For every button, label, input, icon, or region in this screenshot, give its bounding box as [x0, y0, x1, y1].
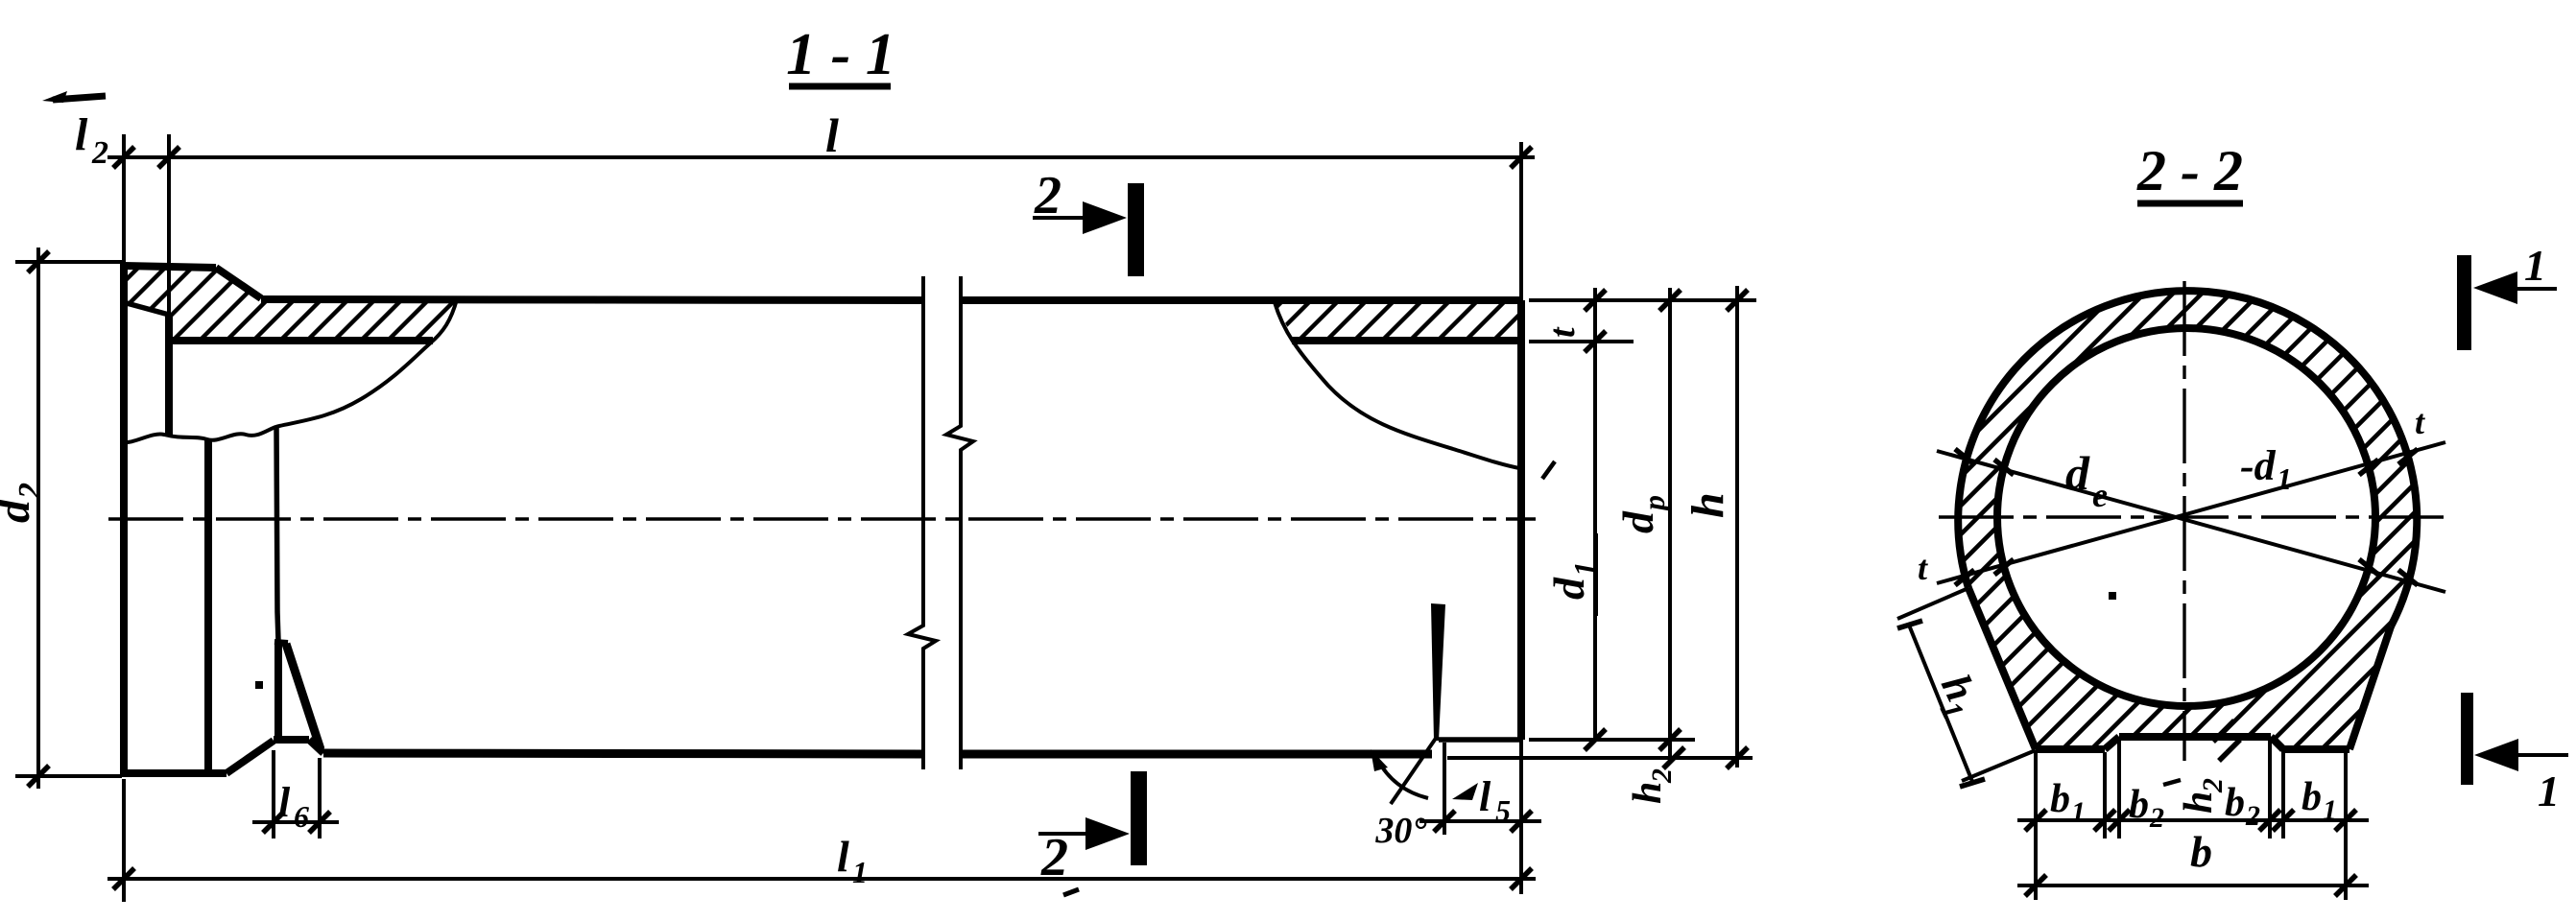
svg-text:l: l [75, 109, 88, 160]
h1 dimension line [1908, 623, 1973, 784]
tick A outer lower-left [1955, 570, 1974, 585]
tick A inner upper-right [2359, 460, 2378, 475]
tick l left [113, 147, 134, 168]
label l1 [837, 832, 868, 889]
tick row1 x2121 [2025, 810, 2046, 831]
svg-text:2: 2 [1040, 828, 1068, 887]
right 30-degree sole bevel spike [1431, 603, 1445, 741]
svg-text:2 - 2: 2 - 2 [2136, 139, 2243, 202]
section marker 1 bottom: arrow [2474, 739, 2568, 771]
h dimension line x=1810 [1735, 286, 1739, 767]
outer left slant [1968, 588, 2036, 749]
barrel outer top (right part) [961, 296, 1521, 304]
stray arrow mark top-left [42, 91, 106, 103]
h2 leader dash [2163, 780, 2181, 785]
tick t bottom [1585, 331, 1606, 352]
break line left with zigzag [908, 276, 936, 769]
d2 dimension line [36, 248, 40, 789]
svg-text:2: 2 [1646, 768, 1678, 784]
right end extension line [1519, 142, 1523, 894]
tick row1 x2365 [2259, 810, 2280, 831]
tick h1 bottom [1960, 779, 1985, 787]
svg-text:1: 1 [2323, 794, 2337, 826]
tick l5 right [1511, 811, 1532, 832]
tick A inner lower-left [1994, 559, 2014, 575]
label -d1 [2240, 442, 2292, 496]
label h2 (rotated) [1626, 768, 1678, 804]
svg-text:l: l [1479, 773, 1491, 820]
right end face [1517, 300, 1525, 740]
section marker 2 bottom: bar [1131, 771, 1147, 865]
bell taper bottom [227, 741, 274, 773]
sole bottom (left half) [323, 753, 923, 754]
svg-text:1: 1 [2538, 767, 2560, 815]
bell view vertical x=217 [204, 439, 212, 772]
tick B outer lower-right [2398, 570, 2418, 585]
svg-text:2: 2 [1034, 166, 1061, 225]
left 30-degree sole bevel spike [274, 642, 282, 740]
outer profile arc [1958, 291, 2417, 626]
tick B inner lower-right [2359, 559, 2378, 575]
t/d1 dimension line x=1662 [1593, 288, 1597, 740]
sole ledge left (y=771) [274, 736, 309, 744]
sole bottom right strip [2283, 745, 2349, 753]
svg-text:1 - 1: 1 - 1 [786, 22, 895, 87]
svg-text:b: b [2050, 777, 2070, 821]
svg-text:l: l [825, 108, 839, 162]
svg-text:6: 6 [294, 799, 309, 834]
tick B outer upper-left [1955, 449, 1974, 464]
label h1 (rotated) [1924, 668, 1991, 725]
svg-text:1: 1 [2524, 241, 2546, 290]
svg-text:t: t [1918, 549, 1928, 587]
svg-text:2: 2 [2149, 802, 2164, 834]
tick B inner upper-left [1994, 460, 2014, 475]
b1/b2 dimension line [2017, 818, 2369, 822]
tick d2 top [28, 251, 49, 272]
h1 extension top [1897, 588, 1968, 619]
svg-text:p: p [1636, 495, 1671, 513]
tick l5 left [1434, 811, 1455, 832]
tick l right [1511, 147, 1532, 168]
h1 extension bottom [1962, 750, 2036, 781]
svg-text:-d: -d [2240, 442, 2277, 489]
label l5 [1479, 773, 1511, 828]
sole bottom left strip [2036, 745, 2105, 753]
label b1 right [2302, 775, 2337, 826]
svg-text:h: h [1682, 492, 1733, 518]
l5 leader arrow [1452, 783, 1478, 800]
svg-text:b: b [2302, 775, 2322, 819]
svg-text:h: h [2177, 791, 2221, 814]
tick row1 x2379 [2273, 810, 2294, 831]
tick l1 right [1511, 868, 1532, 889]
dp dimension line x=1740 [1668, 288, 1672, 758]
vertical centerline 2-2 [2182, 281, 2185, 761]
label de [2065, 446, 2108, 514]
l5 extension line [1443, 743, 1446, 835]
svg-text:l: l [837, 832, 849, 881]
sole recess bottom [2119, 733, 2271, 741]
d2 extension top [15, 260, 122, 264]
tick d2 bottom [28, 766, 49, 787]
svg-text:d: d [0, 499, 39, 523]
svg-text:1: 1 [852, 855, 868, 889]
tick h bottom [1727, 747, 1748, 768]
freehand break curve (bell) [122, 299, 457, 442]
horizontal centerline 2-2 [1939, 515, 2445, 518]
svg-text:1: 1 [2277, 461, 2292, 496]
small dot in 2-2 bore [2109, 592, 2116, 600]
svg-text:30°: 30° [1374, 811, 1426, 851]
sole-top extension line y=771 [1529, 738, 1695, 742]
t extension line y=313 [1529, 298, 1756, 302]
tick d1 bottom [1585, 729, 1606, 750]
svg-text:t: t [1542, 326, 1583, 338]
sole ledge right (y=771) [1439, 737, 1521, 743]
dimension l2 label [75, 109, 108, 171]
extension line x=129 (bell face, top) [122, 134, 126, 263]
svg-text:b: b [2190, 827, 2212, 876]
label b2 right [2225, 781, 2260, 832]
bell taper top [216, 268, 261, 298]
svg-text:t: t [2415, 403, 2425, 441]
extension line x=177 (socket mouth) [167, 134, 171, 317]
svg-text:5: 5 [1495, 793, 1511, 828]
l1 dimension line [107, 877, 1536, 881]
section marker 1 top: arrow [2473, 272, 2557, 304]
sole chamfer left [2105, 737, 2119, 749]
svg-text:1: 1 [2071, 796, 2086, 828]
svg-text:d: d [1613, 510, 1662, 533]
section marker 2 bottom: arrow [1038, 817, 1130, 850]
label b1 left [2050, 777, 2086, 828]
sole bottom (right half) [961, 750, 1432, 759]
stray dash below l1 [1063, 889, 1079, 895]
tick dp top [1659, 290, 1681, 311]
tick h top [1727, 290, 1748, 311]
label l6 [278, 779, 309, 834]
socket edge line in view x=288 [276, 426, 278, 641]
sole chamfer right [2271, 737, 2283, 749]
outer right slant [2349, 626, 2391, 749]
diagonal dimension line de (down-right) [1937, 451, 2445, 592]
diagonal dimension line d1 (up-right) [1937, 442, 2445, 583]
label h2 2-2 (rotated) [2177, 778, 2229, 814]
tick h1 top [1897, 621, 1922, 628]
stray slash near t [1542, 461, 1555, 479]
svg-text:2: 2 [2245, 800, 2260, 832]
title 2-2 underline [2137, 201, 2243, 207]
tick A outer upper-right [2398, 449, 2418, 464]
tick h2 bottom [1663, 747, 1684, 768]
bell bottom edge [121, 769, 227, 777]
svg-text:e: e [2092, 476, 2108, 514]
30 degree arc [1377, 759, 1428, 798]
t extension line y=356 [1529, 340, 1634, 343]
tick row1 x2208 [2109, 810, 2130, 831]
bell left face [120, 263, 128, 776]
centerline 1-1 [108, 517, 1536, 520]
small dot in 1-1 view [255, 681, 263, 689]
tick row1 x2444 [2335, 810, 2356, 831]
label d1 (rotated) with underline [1544, 533, 1602, 616]
label d2 (rotated) [0, 483, 48, 523]
30 degree arc arrowhead [1371, 749, 1388, 771]
break line right with zigzag [946, 276, 973, 769]
tick dp bottom / h2 top [1659, 729, 1681, 750]
tick l6 right [309, 812, 330, 833]
section marker 1 bottom: bar [2461, 693, 2473, 785]
svg-text:d: d [2065, 446, 2090, 500]
h2 ticks near recess [2213, 720, 2240, 761]
l5 dimension line [1419, 819, 1541, 823]
svg-text:l: l [278, 779, 291, 826]
svg-text:2: 2 [2197, 778, 2229, 793]
label b2 left [2129, 783, 2164, 834]
tick l1 left [113, 868, 134, 889]
dimension line l / l2 [107, 155, 1535, 159]
bore top line (spigot) [1292, 337, 1521, 344]
tick row1 x2193 [2094, 810, 2115, 831]
bore circle [1997, 328, 2375, 706]
bevel edge extended [1391, 737, 1437, 804]
l6 extension lines [272, 750, 275, 838]
title 1-1 underline [789, 83, 891, 90]
bell outer top edge [124, 266, 216, 268]
sole-bottom extension line y=790 [1447, 756, 1753, 760]
bore top line (bell) [169, 337, 433, 344]
tick b right [2335, 875, 2356, 896]
section marker 1 top: bar [2457, 255, 2471, 350]
label dp (rotated) [1613, 495, 1671, 533]
socket inner vertical [165, 313, 173, 437]
svg-text:2: 2 [12, 483, 48, 500]
svg-text:b: b [2129, 783, 2149, 827]
tick l second [158, 147, 179, 168]
barrel outer top (left part) [261, 299, 923, 300]
l1 extension left [122, 779, 126, 902]
freehand break curve (spigot) [1275, 302, 1519, 468]
tick t top [1585, 290, 1606, 311]
svg-text:h: h [1626, 782, 1670, 804]
tick l6 left [263, 812, 284, 833]
section marker 2 top: arrow [1033, 201, 1127, 234]
bottom extension lines [2034, 752, 2038, 900]
tick b left [2025, 875, 2046, 896]
l6 dimension line [252, 820, 339, 824]
sole step left [309, 740, 323, 753]
b dimension line [2017, 884, 2369, 887]
socket mouth slope [127, 303, 169, 315]
svg-text:2: 2 [91, 135, 108, 171]
section marker 2 top: bar [1128, 183, 1144, 276]
d2 extension bottom [15, 774, 122, 778]
svg-text:d: d [1544, 577, 1593, 600]
